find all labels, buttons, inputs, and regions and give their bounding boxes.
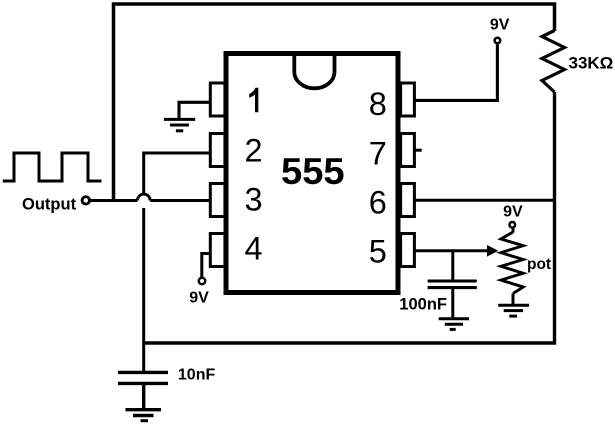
svg-text:10nF: 10nF — [178, 367, 216, 384]
svg-text:7: 7 — [369, 135, 387, 171]
svg-text:9V: 9V — [503, 203, 523, 220]
svg-text:pot: pot — [527, 256, 551, 273]
svg-text:9V: 9V — [490, 17, 510, 34]
svg-text:33KΩ: 33KΩ — [569, 54, 614, 73]
svg-text:555: 555 — [281, 151, 345, 192]
svg-text:5: 5 — [369, 234, 387, 270]
svg-text:9V: 9V — [189, 290, 209, 307]
svg-text:4: 4 — [244, 231, 262, 267]
svg-text:3: 3 — [244, 182, 262, 218]
svg-text:100nF: 100nF — [399, 296, 447, 314]
svg-text:8: 8 — [369, 86, 387, 122]
svg-text:2: 2 — [244, 132, 262, 168]
svg-text:Output: Output — [22, 196, 77, 214]
svg-text:6: 6 — [369, 185, 387, 221]
